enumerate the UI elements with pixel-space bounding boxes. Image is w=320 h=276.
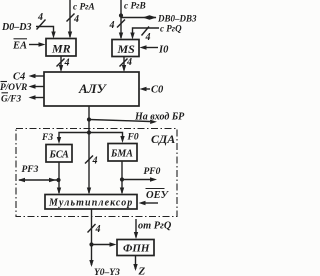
wire: C4 output xyxy=(29,74,45,78)
label EA xyxy=(12,39,27,52)
block multiplexer (Мультиплексор) xyxy=(45,195,137,210)
svg-text:ОЕУ: ОЕУ xyxy=(146,190,170,201)
svg-text:4: 4 xyxy=(109,20,115,31)
svg-text:АЛУ: АЛУ xyxy=(78,81,108,96)
svg-text:4: 4 xyxy=(92,156,98,167)
junction dot (F bus / shift branch) xyxy=(87,130,91,134)
svg-text:I0: I0 xyxy=(158,45,169,56)
svg-text:4: 4 xyxy=(37,12,43,23)
wire: с РгВ input to MS xyxy=(117,0,125,40)
wire: от РгQ input to ФПН xyxy=(134,219,138,239)
wire: G/F3 output xyxy=(29,95,45,99)
svg-text:P/OVR: P/OVR xyxy=(0,83,27,93)
svg-text:MS: MS xyxy=(117,42,136,56)
wire: БСА output to multiplexer xyxy=(57,162,61,195)
svg-text:4: 4 xyxy=(64,58,70,69)
svg-text:C4: C4 xyxy=(13,72,25,83)
junction dot (F bus / БР branch) xyxy=(87,117,91,121)
wire: P/OVR output xyxy=(29,84,45,88)
svg-text:4: 4 xyxy=(73,14,79,25)
block БСА xyxy=(46,145,72,163)
svg-text:F0: F0 xyxy=(127,133,139,143)
wire: multiplexer output Y (vertical) xyxy=(88,209,96,267)
svg-text:G/F3: G/F3 xyxy=(1,95,21,105)
block ALU (АЛУ) xyxy=(44,72,139,106)
svg-text:с РгА: с РгА xyxy=(73,3,95,13)
wire: БМА output to multiplexer xyxy=(120,161,124,195)
svg-text:4: 4 xyxy=(126,57,132,68)
wire: D0-D3 input to MR xyxy=(36,20,56,39)
wire: DB0-DB3 bidirectional bus xyxy=(121,15,157,19)
label G/F3 xyxy=(1,93,21,105)
wire: PF3 bidirectional xyxy=(18,178,59,182)
wire: EA input to MR xyxy=(29,42,46,46)
junction dot (БСА line / PF3) xyxy=(56,178,60,182)
svg-text:C0: C0 xyxy=(151,85,164,96)
junction dot (Y bus / ФПН branch) xyxy=(89,242,93,246)
wire: PF0 output xyxy=(122,177,157,181)
svg-text:СДА: СДА xyxy=(151,132,175,146)
label P/OVR xyxy=(0,82,27,94)
frame СДА (dash-dot border) xyxy=(16,129,177,217)
svg-text:4: 4 xyxy=(145,32,151,43)
svg-text:от РгQ: от РгQ xyxy=(138,221,172,232)
svg-text:ФПН: ФПН xyxy=(123,243,150,255)
svg-text:На вход БР: На вход БР xyxy=(134,112,185,123)
wire: C0 carry input xyxy=(140,87,151,91)
junction dot (с РгВ / DB branch) xyxy=(119,13,123,17)
svg-text:с РгQ: с РгQ xyxy=(160,24,182,34)
wire: с РгQ input to MS xyxy=(130,27,159,40)
svg-text:DB0–DB3: DB0–DB3 xyxy=(157,14,197,24)
svg-text:D0–D3: D0–D3 xyxy=(1,22,31,33)
wire: ALU output bus F (main vertical) xyxy=(85,106,93,195)
wire: MR output to ALU xyxy=(57,56,65,72)
wire: branch to ФПН xyxy=(92,242,117,246)
block MR xyxy=(46,39,76,57)
wire: to БР input xyxy=(89,120,157,125)
svg-text:Y0–Y3: Y0–Y3 xyxy=(94,268,120,276)
wire: I0 input to MS xyxy=(140,45,159,49)
block БМА xyxy=(108,144,137,162)
svg-text:EA: EA xyxy=(12,41,27,52)
label OEY xyxy=(146,189,170,202)
svg-text:PF3: PF3 xyxy=(22,165,39,175)
svg-text:БСА: БСА xyxy=(49,150,70,161)
block ФПН xyxy=(117,240,154,256)
wire: OEY enable input to multiplexer xyxy=(139,201,159,205)
svg-text:БМА: БМА xyxy=(110,149,133,160)
svg-text:Z: Z xyxy=(138,266,146,276)
wire: MS output to ALU xyxy=(120,57,128,73)
svg-text:MR: MR xyxy=(51,42,71,56)
svg-text:PF0: PF0 xyxy=(144,167,161,177)
svg-text:Мультиплексор: Мультиплексор xyxy=(48,198,133,209)
wire: F0 branch to БМА xyxy=(89,133,125,144)
wire: F3 branch to БСА xyxy=(57,133,89,145)
junction dot (БМА line / PF0) xyxy=(120,177,124,181)
wire: Z output xyxy=(133,256,137,272)
svg-text:F3: F3 xyxy=(41,133,53,143)
svg-text:4: 4 xyxy=(95,224,101,235)
wire: с РгА input to MR xyxy=(67,0,75,39)
block MS xyxy=(112,40,139,57)
svg-text:с РгВ: с РгВ xyxy=(124,2,146,12)
